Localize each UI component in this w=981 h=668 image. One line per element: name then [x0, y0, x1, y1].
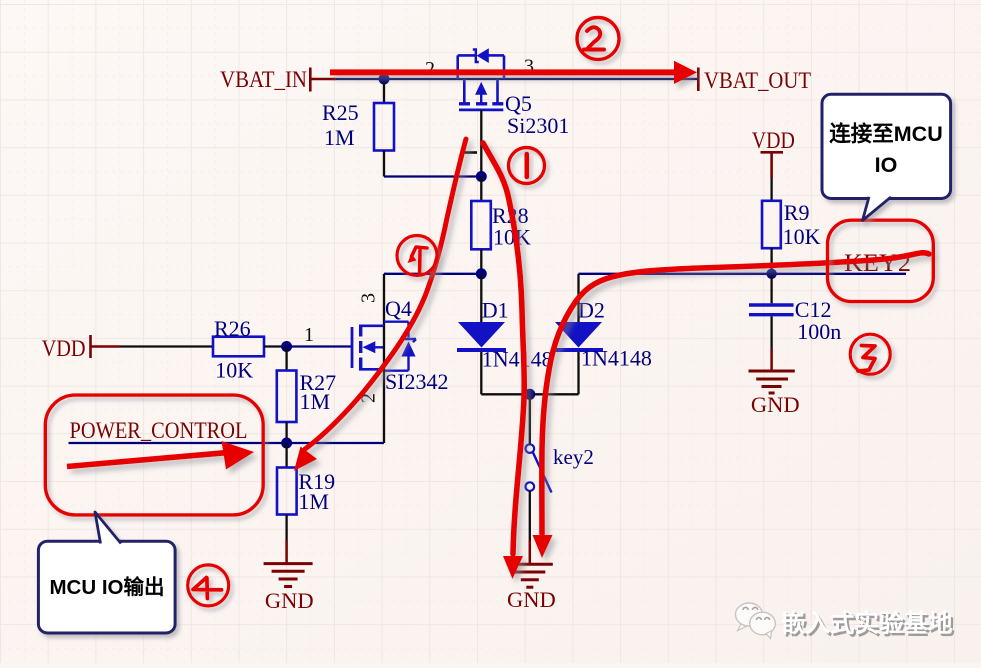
annotation circled number 1: [509, 148, 545, 184]
svg-text:1M: 1M: [324, 125, 355, 150]
svg-text:1M: 1M: [300, 389, 331, 414]
tick mark at curve 1 start: [464, 151, 477, 154]
svg-text:VBAT_IN: VBAT_IN: [220, 67, 307, 92]
annotation rounded box POWER_CONTROL: [45, 395, 263, 515]
annotation rounded box KEY2: [828, 220, 934, 301]
annotation circled number 4: [188, 565, 229, 606]
svg-text:1N4148: 1N4148: [581, 346, 652, 371]
resistor R9: [762, 200, 821, 249]
svg-text:连接至MCU: 连接至MCU: [829, 121, 942, 146]
wire D1-D2 bottom bar: [481, 393, 578, 395]
net label VBAT_OUT: [698, 68, 811, 94]
diode D2 1N4148: [554, 297, 652, 370]
wire main rail to R25: [383, 79, 385, 103]
switch key2: [526, 444, 594, 492]
svg-text:D2: D2: [578, 297, 605, 322]
wire VBAT_IN to VBAT_OUT (main top rail): [336, 78, 697, 80]
svg-text:100n: 100n: [797, 319, 841, 344]
annotation curve 5 (gate drive path): [294, 139, 466, 471]
wire R26 to node: [264, 345, 287, 347]
wire D2 top / KEY2 rail: [579, 274, 907, 322]
wire R25 bottom to Q5 gate: [384, 151, 481, 177]
svg-text:POWER_CONTROL: POWER_CONTROL: [70, 418, 248, 443]
wire POWER_CONTROL to Q4 source: [69, 326, 385, 443]
svg-text:Si2301: Si2301: [507, 113, 569, 138]
annotation curve 1 (discharge path down to GND): [483, 143, 524, 579]
watermark text: [781, 609, 955, 640]
net label VBAT_IN: [220, 67, 336, 92]
wire Q5 gate lead down: [480, 110, 482, 177]
svg-text:R9: R9: [784, 200, 810, 225]
svg-text:1: 1: [304, 324, 314, 346]
resistor R28: [471, 201, 531, 250]
capacitor C12 100n: [749, 297, 841, 344]
ground GND (left): [264, 564, 314, 613]
svg-text:D1: D1: [482, 297, 509, 322]
diode D1 1N4148: [457, 297, 553, 371]
node junction POWER_CONTROL / R27 / R19 / Q4 source: [281, 438, 292, 449]
annotation curve 3 (KEY2 path down to GND): [533, 253, 930, 558]
svg-text:GND: GND: [751, 392, 800, 417]
wire node to switch: [529, 394, 531, 444]
svg-text:IO: IO: [875, 153, 898, 177]
wire node to D1 anode: [480, 274, 482, 322]
wire D2 cathode down: [577, 352, 579, 394]
wire node to C12: [770, 274, 772, 304]
svg-text:2: 2: [425, 58, 435, 80]
annotation arrow 2 (VBAT_IN to VBAT_OUT current path): [330, 61, 697, 84]
transistor Q5 (P-MOSFET Si2301): [425, 48, 569, 138]
watermark logo (chat bubbles): [736, 603, 776, 639]
svg-text:VBAT_OUT: VBAT_OUT: [704, 68, 811, 93]
svg-text:嵌入式实验基地: 嵌入式实验基地: [781, 609, 953, 638]
resistor R26: [213, 316, 264, 383]
svg-text:10K: 10K: [783, 224, 821, 249]
wire R19 to GND: [285, 515, 287, 563]
svg-text:GND: GND: [507, 587, 556, 612]
ground GND (right): [749, 371, 800, 417]
svg-text:1N4148: 1N4148: [482, 346, 553, 371]
svg-text:3: 3: [358, 293, 380, 303]
wire C12 to GND: [770, 316, 772, 369]
net label POWER_CONTROL: [70, 418, 248, 443]
svg-text:R25: R25: [322, 100, 359, 125]
callout bubble: connect to MCU IO: [822, 94, 951, 220]
node junction at R25 top: [379, 74, 390, 85]
svg-text:GND: GND: [265, 588, 314, 613]
ground GND (center): [507, 564, 556, 612]
node junction R26 / R27 / Q4 gate: [281, 341, 292, 352]
node junction R28 / Q4 drain / D1: [476, 268, 487, 279]
svg-text:R26: R26: [214, 316, 251, 341]
callout bubble: MCU IO output: [38, 512, 175, 633]
svg-text:key2: key2: [553, 445, 594, 469]
annotation arrow 4 (points at POWER_CONTROL net): [67, 441, 254, 470]
svg-text:MCU IO输出: MCU IO输出: [49, 575, 164, 599]
svg-text:VDD: VDD: [42, 336, 86, 361]
wire node to R19: [285, 443, 287, 468]
wire R27 top lead: [285, 347, 287, 371]
wire R28 bottom to node: [480, 249, 482, 273]
wire node to Q4 drain: [384, 274, 481, 326]
wire D1 cathode down: [480, 352, 482, 394]
node junction key2 top: [524, 389, 535, 400]
power VDD (left): [42, 335, 213, 361]
wire R27 bottom to node: [285, 422, 287, 443]
transistor Q4 (N-MOSFET SI2342): [352, 293, 449, 403]
net label KEY2: [844, 248, 911, 277]
svg-text:SI2342: SI2342: [385, 369, 449, 394]
annotation circled number 2: [577, 18, 619, 60]
power VDD (right): [752, 128, 795, 201]
wire R9 to node: [770, 248, 772, 274]
wire junction to R28: [480, 177, 482, 202]
svg-text:1M: 1M: [298, 489, 329, 514]
node junction R9 / C12 / KEY2: [766, 269, 776, 279]
svg-text:VDD: VDD: [752, 128, 795, 153]
resistor R25: [322, 100, 394, 151]
wire node to Q4 gate (pin 1): [287, 324, 352, 347]
annotation circled number 3: [850, 334, 890, 374]
svg-text:Q4: Q4: [385, 296, 412, 321]
wire switch to GND: [529, 491, 531, 564]
annotation circled number 5: [397, 236, 437, 276]
resistor R27: [277, 370, 336, 422]
background: [0, 0, 1, 1]
node junction Q5 gate / R25 / R28: [476, 171, 487, 182]
svg-text:10K: 10K: [215, 358, 253, 383]
resistor R19: [277, 468, 335, 515]
